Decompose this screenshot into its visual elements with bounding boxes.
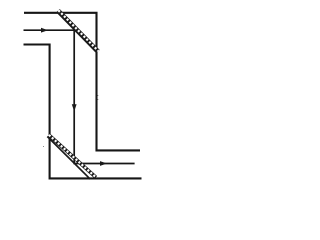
scan speck: [43, 146, 44, 147]
arrowhead on vertical ray: [72, 104, 77, 111]
ray segment vertical down the tube: [73, 30, 75, 164]
inner duct wall (upper lip, left, bottom): [24, 45, 142, 179]
arrowhead on entering ray: [41, 28, 48, 33]
top mirror M1 hatched strip: [57, 10, 99, 52]
arrowhead on exiting ray: [100, 161, 107, 166]
outer duct wall (top, right, lower-right lip): [24, 13, 140, 151]
bottom mirror M2 hatched strip: [47, 135, 96, 179]
ray segment horizontal exiting bottom-right: [74, 163, 135, 165]
scan serration marks on right wall: [97, 95, 100, 100]
ray segment horizontal entering top-left: [24, 29, 75, 31]
